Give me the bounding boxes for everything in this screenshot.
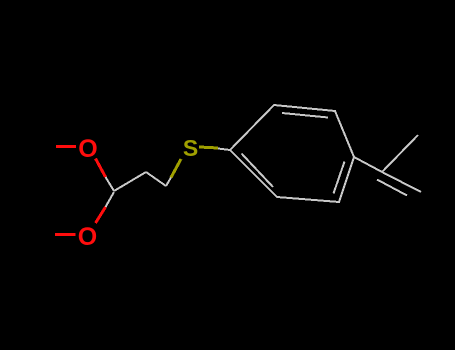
ring inner double bond lower-left <box>242 154 274 188</box>
wire: CH2-CH2 bond <box>146 172 166 186</box>
wire: O1-CH bond red half <box>96 159 106 178</box>
wire: methyl-O bond bottom (CH3-O) <box>55 233 76 236</box>
wire: CH2-S bond olive half <box>171 159 181 178</box>
svg-text:S: S <box>183 135 198 161</box>
wire: CH2-S bond gray half <box>166 178 171 187</box>
wire: C7=CH2 double bond main line <box>382 172 421 192</box>
wire: S-aryl bond olive half <box>199 147 218 148</box>
wire: O2-CH bond gray half <box>106 192 115 207</box>
wire: O2-CH bond red half <box>96 207 106 223</box>
wire: C7=CH2 double bond inner line <box>377 180 407 196</box>
svg-text:O: O <box>78 135 97 163</box>
benzene ring outline <box>230 105 354 202</box>
wire: ring-C7 bond (to isopropenyl) <box>354 157 382 172</box>
ring inner double bond top <box>282 113 328 118</box>
ring inner double bond lower-right <box>334 162 345 194</box>
wire: methyl-O bond top (CH3-O) <box>56 145 76 148</box>
svg-text:O: O <box>78 223 97 251</box>
wire: S-aryl bond gray half <box>218 149 230 151</box>
wire: O1-CH bond gray half <box>106 177 115 191</box>
wire: C7-CH3 bond <box>382 135 418 172</box>
wire: CH-CH2 bond <box>114 172 146 191</box>
